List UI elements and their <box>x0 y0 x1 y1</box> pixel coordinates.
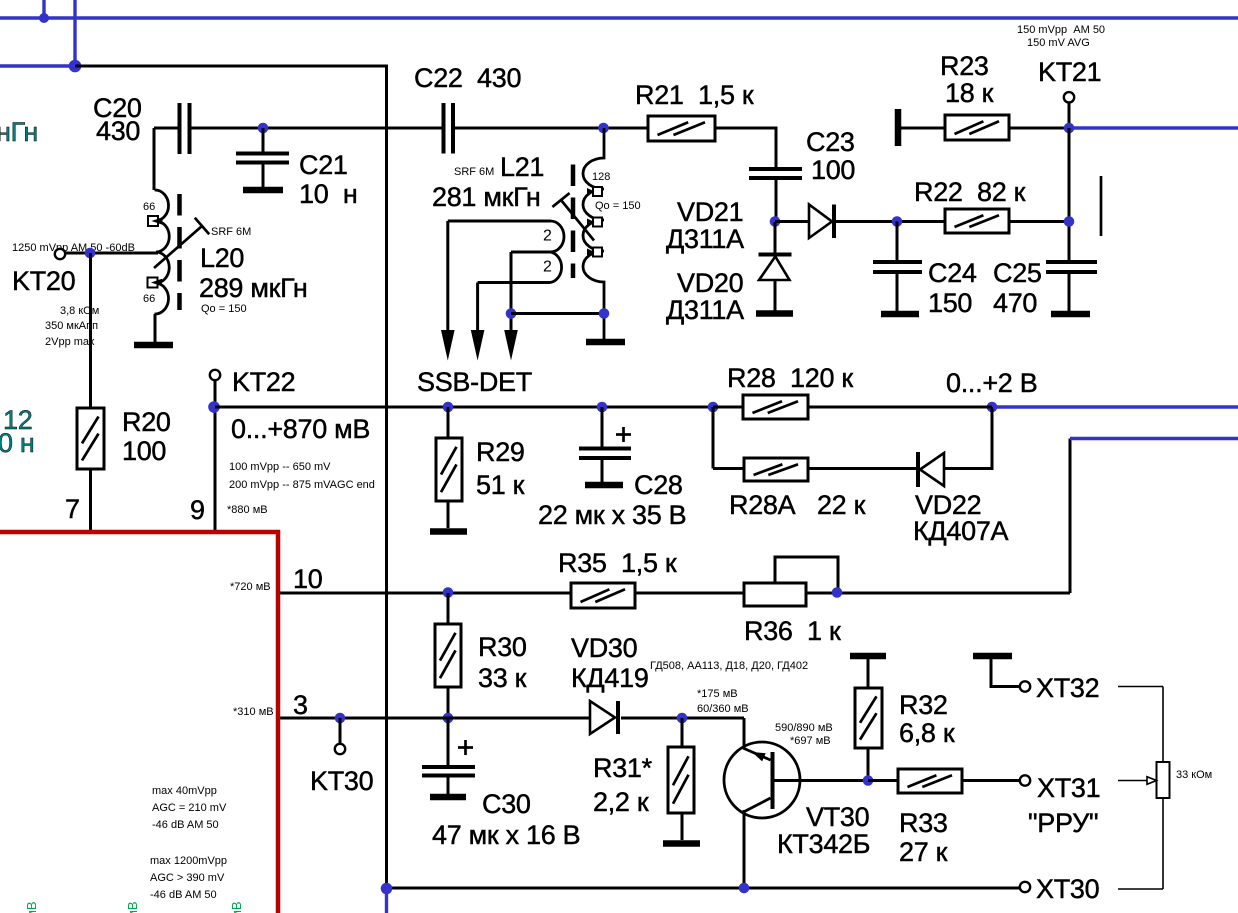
wire <box>601 407 604 449</box>
svg-text:VT30: VT30 <box>806 802 869 832</box>
wire <box>89 469 92 532</box>
ground <box>430 528 467 535</box>
label R20 <box>122 407 171 466</box>
wire <box>808 406 992 409</box>
label green partial <box>125 901 140 913</box>
resistor R32 <box>855 688 882 748</box>
svg-text:KT20: KT20 <box>12 266 75 296</box>
label C28 <box>538 470 686 530</box>
svg-text:C22 430: C22 430 <box>414 63 521 93</box>
junction <box>1064 216 1075 227</box>
svg-text:200 mVpp -- 875 mVAGC end: 200 mVpp -- 875 mVAGC end <box>229 479 375 491</box>
wire <box>1009 220 1069 223</box>
svg-text:KT22: KT22 <box>232 367 295 397</box>
diode VD22 <box>918 452 944 487</box>
wire <box>447 776 450 795</box>
svg-text:-46 dB AM 50: -46 dB AM 50 <box>152 819 219 831</box>
label annotation <box>150 855 227 901</box>
wire <box>1118 888 1163 890</box>
ground <box>663 840 700 847</box>
wire ssb-det 2 <box>476 283 479 332</box>
svg-text:2: 2 <box>543 259 552 276</box>
svg-text:3: 3 <box>293 690 308 720</box>
resistor R36 trimmer <box>744 583 806 606</box>
wire <box>447 593 450 624</box>
arrow <box>504 330 518 361</box>
svg-text:VD21: VD21 <box>677 197 743 227</box>
svg-text:AGC = 210 mV: AGC = 210 mV <box>152 802 227 814</box>
svg-text:ГД508, АА113, Д18, Д20, ГД402: ГД508, АА113, Д18, Д20, ГД402 <box>650 660 808 672</box>
wire <box>991 659 1020 687</box>
transformer L21 primary winding b <box>511 252 562 283</box>
transformer L21 secondary <box>583 128 604 339</box>
label R29 <box>476 437 525 500</box>
transformer L21 arrow <box>552 193 594 240</box>
wire R36 tap <box>775 557 838 593</box>
wire <box>280 717 590 720</box>
transformer L21 tap square 2 <box>587 218 602 227</box>
junction <box>443 587 454 598</box>
junction <box>85 248 96 259</box>
svg-text:VD30: VD30 <box>571 633 637 663</box>
resistor R33 <box>898 769 962 793</box>
capacitor C20 <box>180 103 190 154</box>
svg-text:10: 10 <box>293 564 322 594</box>
label R21 <box>635 80 754 110</box>
svg-text:XT31: XT31 <box>1037 773 1100 803</box>
wire <box>1118 686 1163 688</box>
wire <box>387 887 1021 890</box>
wire blue horizontal <box>0 64 75 67</box>
junction <box>598 123 609 134</box>
svg-text:SRF 6M: SRF 6M <box>211 226 251 238</box>
junction <box>770 216 781 227</box>
label green partial <box>24 901 39 913</box>
terminal XT31 <box>1020 775 1030 785</box>
label C24 <box>928 258 977 318</box>
svg-text:C24: C24 <box>928 258 977 288</box>
ground <box>1051 311 1090 318</box>
svg-text:*310 мВ: *310 мВ <box>233 706 274 718</box>
junction <box>258 123 269 134</box>
wire ssb-det 3 <box>510 252 513 331</box>
wire <box>944 407 992 469</box>
wire fragment <box>1100 176 1103 236</box>
wire <box>447 501 450 528</box>
wire <box>713 406 743 409</box>
diode VD20 <box>759 255 792 281</box>
label voltage <box>946 368 1037 398</box>
wire <box>806 592 1070 595</box>
label annotation <box>12 242 135 254</box>
wire <box>601 458 604 482</box>
label R31 <box>593 753 653 817</box>
svg-text:0 н: 0 н <box>0 428 35 458</box>
inductor L20 tap square 1 <box>148 216 163 226</box>
diode VD30 <box>590 701 618 734</box>
label 33k <box>1176 769 1212 781</box>
terminal KT21 <box>1064 92 1074 102</box>
wire <box>511 312 604 315</box>
resistor R28 <box>743 395 808 419</box>
wire ssb-det 1 <box>446 221 449 331</box>
label pin 10 <box>293 564 322 594</box>
label R28 <box>727 363 853 393</box>
label R36 <box>744 616 841 646</box>
svg-text:100: 100 <box>811 155 855 185</box>
wire <box>681 813 684 840</box>
svg-text:470: 470 <box>993 288 1037 318</box>
svg-text:18 к: 18 к <box>945 78 994 108</box>
svg-text:SSB-DET: SSB-DET <box>417 367 532 397</box>
arrow <box>471 330 485 361</box>
label 128 <box>592 171 610 183</box>
wire <box>153 128 156 190</box>
label VD20 <box>666 268 744 325</box>
wire <box>154 127 180 130</box>
label annotation <box>152 785 227 831</box>
svg-text:R20: R20 <box>122 407 171 437</box>
svg-text:AGC > 390 mV: AGC > 390 mV <box>150 872 225 884</box>
svg-text:KT30: KT30 <box>310 766 373 796</box>
svg-text:66: 66 <box>143 293 155 305</box>
wire <box>775 180 778 222</box>
label pin 7 <box>65 494 80 524</box>
label green partial <box>229 901 244 913</box>
junction <box>832 587 843 598</box>
svg-text:XT32: XT32 <box>1036 673 1099 703</box>
svg-text:47 мк x 16 В: 47 мк x 16 В <box>432 820 580 850</box>
label KT20 <box>12 266 75 296</box>
junction <box>69 60 82 73</box>
svg-text:60/360 мВ: 60/360 мВ <box>697 703 749 715</box>
junction <box>677 713 688 724</box>
svg-text:100 mVpp -- 650 mV: 100 mVpp -- 650 mV <box>229 461 331 473</box>
label annotation <box>1017 24 1105 49</box>
wire blue top bus <box>0 16 1238 19</box>
wire <box>868 779 898 782</box>
junction <box>708 402 719 413</box>
svg-text:L20: L20 <box>200 243 244 273</box>
wire <box>635 592 744 595</box>
svg-text:Qo = 150: Qo = 150 <box>201 303 247 315</box>
svg-text:51 к: 51 к <box>476 470 525 500</box>
ground <box>243 187 283 194</box>
junction <box>892 216 903 227</box>
terminal XT30 <box>1020 882 1030 892</box>
label SSB-DET <box>417 367 532 397</box>
label C30 <box>432 789 580 850</box>
capacitor C28 <box>579 427 631 458</box>
wire blue stub <box>42 0 45 18</box>
label XT31 <box>1028 773 1100 838</box>
label VD21 <box>666 197 744 254</box>
wire <box>621 717 744 720</box>
label XT32 <box>1036 673 1099 703</box>
label pin 3 <box>293 690 308 720</box>
svg-text:-46 dB AM 50: -46 dB AM 50 <box>150 889 217 901</box>
wire <box>154 314 157 342</box>
label VD22 <box>913 490 1009 546</box>
wire <box>1068 103 1071 129</box>
wire <box>713 467 744 470</box>
svg-text:150 mV AVG: 150 mV AVG <box>1027 37 1090 49</box>
wire blue bottom <box>385 891 388 913</box>
svg-text:33 к: 33 к <box>478 663 527 693</box>
label pin 9 <box>190 495 205 525</box>
label L20 <box>199 226 308 315</box>
junction <box>506 308 517 319</box>
wire <box>898 127 945 130</box>
wire <box>214 380 217 532</box>
resistor R29 <box>436 438 462 501</box>
wire <box>681 718 684 747</box>
junction <box>1064 123 1075 134</box>
terminal KT22 <box>210 370 220 380</box>
ground <box>756 310 793 317</box>
svg-text:R28 120 к: R28 120 к <box>727 363 853 393</box>
ground <box>430 794 466 801</box>
wire <box>262 163 265 188</box>
wire <box>453 127 648 130</box>
svg-text:289 мкГн: 289 мкГн <box>199 273 308 303</box>
transformer L21 primary winding a <box>448 221 564 252</box>
wire <box>743 810 746 888</box>
svg-text:*697 мВ: *697 мВ <box>790 735 831 747</box>
label VD30 <box>571 633 649 693</box>
resistor R30 <box>435 624 461 687</box>
label XT30 <box>1036 874 1099 904</box>
wire <box>808 467 918 470</box>
resistor R23 <box>945 115 1009 140</box>
transformer L21 tap square 3 <box>587 248 602 257</box>
svg-text:7: 7 <box>65 494 80 524</box>
label R23 <box>940 51 994 108</box>
svg-text:*720 мВ: *720 мВ <box>230 581 271 593</box>
label 66 upper <box>143 201 155 213</box>
resistor R20 <box>77 408 104 469</box>
label annotation <box>227 504 268 516</box>
wire <box>339 718 342 744</box>
label R32 <box>899 690 955 748</box>
terminal KT20 <box>55 249 65 259</box>
svg-text:0...+870 мВ: 0...+870 мВ <box>231 414 370 444</box>
ic block boundary <box>0 532 278 913</box>
svg-text:430: 430 <box>96 116 140 146</box>
label voltage <box>231 414 370 444</box>
junction <box>739 883 750 894</box>
junction <box>863 775 874 786</box>
junction <box>599 308 610 319</box>
wire <box>743 718 746 748</box>
capacitor C30 <box>422 740 475 776</box>
resistor R21 <box>648 116 715 141</box>
svg-text:10 н: 10 н <box>299 179 357 209</box>
wire <box>712 407 715 469</box>
power bar <box>973 653 1012 660</box>
potentiometer 33k <box>1157 762 1170 798</box>
wire <box>190 127 444 130</box>
junction <box>335 713 346 724</box>
wire <box>89 253 92 408</box>
terminal KT30 <box>335 744 345 754</box>
terminal XT32 <box>1020 681 1030 691</box>
svg-text:*880 мВ: *880 мВ <box>227 504 268 516</box>
transformer L21 core <box>571 165 576 279</box>
svg-text:max 1200mVpp: max 1200mVpp <box>150 855 227 867</box>
svg-text:C23: C23 <box>806 127 855 157</box>
junction <box>39 13 49 23</box>
resistor R28A <box>744 458 808 481</box>
label annotation <box>697 688 749 715</box>
wire blue KT21 out <box>1072 126 1238 129</box>
svg-text:6,8 к: 6,8 к <box>899 718 955 748</box>
capacitor C21 <box>236 154 289 163</box>
svg-text:КД419: КД419 <box>571 663 649 693</box>
label Qo <box>595 200 641 212</box>
wire blue out <box>1070 437 1238 440</box>
capacitor C23 <box>749 169 802 178</box>
junction <box>597 402 608 413</box>
svg-text:281 мкГн: 281 мкГн <box>432 182 541 212</box>
resistor R22 <box>945 209 1009 233</box>
svg-text:Д311А: Д311А <box>666 295 744 325</box>
junction <box>987 402 998 413</box>
label R30 <box>478 632 527 693</box>
label turns 2 <box>543 228 552 245</box>
svg-text:*175 мВ: *175 мВ <box>697 688 738 700</box>
svg-text:R29: R29 <box>476 437 525 467</box>
wire <box>867 748 870 781</box>
wire <box>447 407 450 438</box>
diode VD21 <box>809 205 834 239</box>
svg-text:КД407А: КД407А <box>913 516 1009 546</box>
svg-text:нГн: нГн <box>0 117 38 147</box>
label KT30 <box>310 766 373 796</box>
label R22 <box>914 177 1026 207</box>
label 66 lower <box>143 293 155 305</box>
arrow <box>441 330 455 361</box>
terminator bar <box>895 109 902 146</box>
svg-text:2Vpp max: 2Vpp max <box>45 336 95 348</box>
junction <box>208 401 220 413</box>
label C20 <box>93 93 142 146</box>
junction <box>443 402 454 413</box>
inductor L20 winding <box>155 190 170 314</box>
svg-text:"РРУ": "РРУ" <box>1028 808 1098 838</box>
svg-text:C21: C21 <box>299 150 348 180</box>
wire <box>215 406 992 409</box>
svg-text:9: 9 <box>190 495 205 525</box>
wire bus to bottom <box>75 66 387 888</box>
svg-text:L21: L21 <box>500 152 544 182</box>
svg-text:R30: R30 <box>478 632 527 662</box>
label teal partial <box>0 117 38 147</box>
svg-text:C30: C30 <box>482 789 531 819</box>
wire <box>1162 687 1164 890</box>
wire <box>447 687 450 718</box>
svg-text:VD20: VD20 <box>677 268 743 298</box>
ground <box>585 482 623 489</box>
svg-text:590/890 мВ: 590/890 мВ <box>775 722 833 734</box>
ground <box>586 339 625 346</box>
label diode types <box>650 660 808 672</box>
wire base <box>774 779 868 782</box>
wire <box>775 220 810 223</box>
transistor VT30 <box>724 742 800 818</box>
svg-text:27 к: 27 к <box>899 837 948 867</box>
junction <box>443 713 454 724</box>
svg-text:мВ: мВ <box>229 901 244 913</box>
svg-text:R35 1,5 к: R35 1,5 к <box>558 548 677 578</box>
label turns 2 <box>543 259 552 276</box>
svg-text:150 mVpp AM 50: 150 mVpp AM 50 <box>1017 24 1105 36</box>
wire <box>774 280 777 311</box>
label R28A <box>729 490 866 520</box>
inductor L20 tap square 2 <box>148 278 163 288</box>
label annotation <box>233 706 274 718</box>
svg-text:SRF 6M: SRF 6M <box>454 166 494 178</box>
svg-text:R22 82 к: R22 82 к <box>914 177 1026 207</box>
transformer L21 tap square 1 <box>587 187 602 196</box>
wire <box>896 272 899 311</box>
label L21 <box>432 152 544 212</box>
wire <box>774 222 777 254</box>
svg-text:KT21: KT21 <box>1038 57 1101 87</box>
inductor L20 core <box>177 194 182 310</box>
svg-text:R36 1 к: R36 1 к <box>744 616 841 646</box>
svg-text:3,8 кОм: 3,8 кОм <box>60 305 99 317</box>
wire <box>1068 272 1071 311</box>
wire <box>715 128 776 168</box>
svg-text:C28: C28 <box>634 470 683 500</box>
svg-text:66: 66 <box>143 201 155 213</box>
label R35 <box>558 548 677 578</box>
wire <box>65 252 158 255</box>
wire <box>447 718 450 767</box>
label annotation <box>775 722 833 747</box>
label C25 <box>993 258 1042 318</box>
ground <box>881 311 919 318</box>
wire <box>896 222 899 263</box>
svg-text:0...+2 В: 0...+2 В <box>946 368 1037 398</box>
svg-text:R31*: R31* <box>593 753 653 783</box>
svg-text:33 кОм: 33 кОм <box>1176 769 1212 781</box>
svg-text:R23: R23 <box>940 51 989 81</box>
wire <box>834 220 945 223</box>
label C21 <box>299 150 357 209</box>
svg-text:22 мк x 35 В: 22 мк x 35 В <box>538 500 686 530</box>
wire <box>280 592 571 595</box>
svg-text:Д311А: Д311А <box>666 224 744 254</box>
svg-text:Qo = 150: Qo = 150 <box>595 200 641 212</box>
wire <box>262 128 265 154</box>
wire blue AGC out <box>993 405 1238 408</box>
label teal partial <box>0 405 35 458</box>
svg-text:R28A 22 к: R28A 22 к <box>729 490 866 520</box>
wire <box>867 659 870 688</box>
label R33 <box>899 808 948 867</box>
svg-text:R32: R32 <box>899 690 948 720</box>
label C22 <box>414 63 521 93</box>
svg-text:C25: C25 <box>993 258 1042 288</box>
ground <box>134 342 173 349</box>
label annotation <box>45 305 99 348</box>
svg-text:R21 1,5 к: R21 1,5 к <box>635 80 754 110</box>
svg-text:XT30: XT30 <box>1036 874 1099 904</box>
svg-text:2: 2 <box>543 228 552 245</box>
capacitor C24 <box>873 262 922 272</box>
